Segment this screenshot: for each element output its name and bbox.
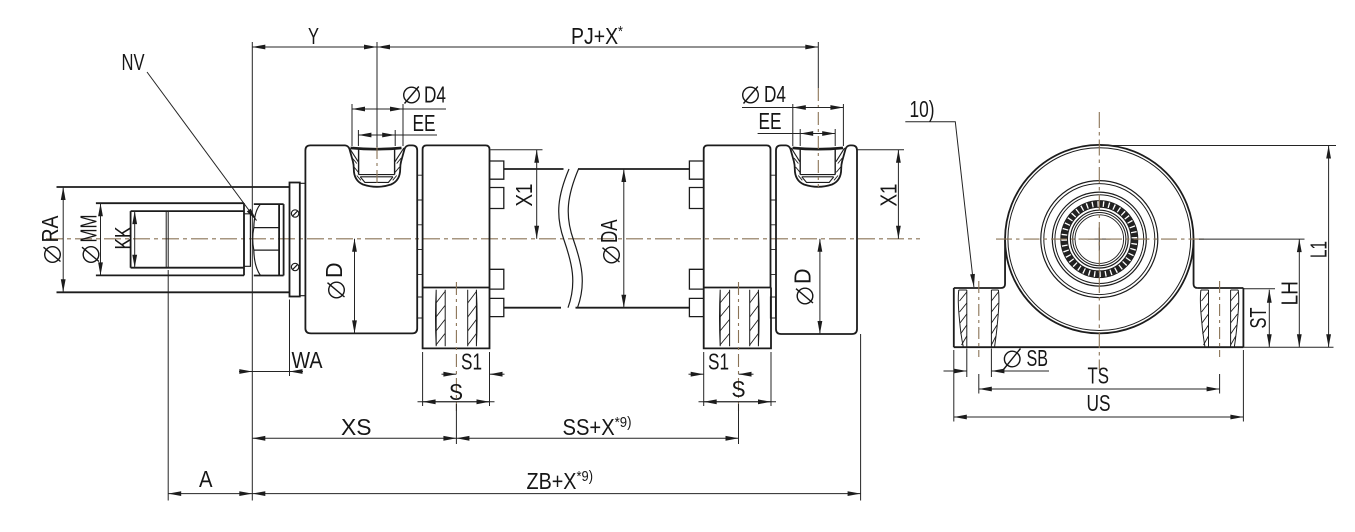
stud block 2 bbox=[704, 288, 771, 349]
ext lines TS bbox=[979, 374, 1220, 394]
cap-flange gap lower block bbox=[417, 297, 422, 318]
trunnion flange 2 bbox=[704, 145, 771, 287]
svg-text:WA: WA bbox=[292, 347, 324, 373]
left foot band outer hatch bbox=[960, 292, 967, 345]
piston rod outer envelope RA lines bbox=[57, 187, 290, 292]
svg-text:KK: KK bbox=[110, 226, 136, 249]
label D right rotated bbox=[790, 269, 816, 304]
svg-text:D4: D4 bbox=[424, 82, 446, 108]
svg-text:10): 10) bbox=[910, 96, 935, 122]
rod cap port bore bottom lines bbox=[800, 175, 835, 177]
port 2 centerline bbox=[817, 88, 819, 187]
rod cap port chamfer diagonals bbox=[791, 148, 844, 162]
ext line stud2 center bbox=[738, 404, 740, 444]
dim LH bbox=[1298, 239, 1300, 347]
svg-text:MM: MM bbox=[76, 215, 102, 243]
lock nut NV body bbox=[254, 204, 284, 275]
ext lines D4 port1 bbox=[352, 104, 403, 146]
svg-text:ST: ST bbox=[1245, 308, 1271, 329]
left shoulder and foot top bbox=[954, 287, 1001, 289]
svg-text:LH: LH bbox=[1277, 281, 1303, 306]
head cap port hatch right bbox=[393, 158, 402, 180]
dim S right inside arrows bbox=[699, 401, 777, 403]
ext line thread runout long bbox=[167, 270, 169, 501]
rod cap port bore top heavy line bbox=[793, 148, 844, 149]
head cap port hatch left bbox=[352, 158, 361, 180]
dim S1 left outside arrows bbox=[442, 373, 457, 375]
stud 2 thread band right bbox=[750, 290, 759, 347]
svg-text:D: D bbox=[321, 263, 347, 279]
flange 1 tab 3 bbox=[490, 269, 504, 289]
dim L1 bbox=[1328, 146, 1330, 348]
svg-text:TS: TS bbox=[1088, 363, 1110, 389]
svg-text:EE: EE bbox=[759, 108, 782, 134]
label MM rotated bbox=[76, 215, 102, 263]
dim D4 port2 label tail bbox=[742, 107, 793, 109]
rod tip stub bbox=[244, 214, 250, 266]
svg-text:S1: S1 bbox=[461, 349, 482, 375]
flange 1 tab 1 bbox=[490, 161, 504, 179]
leader 10) bbox=[905, 122, 973, 279]
dim S1 right outside arrows bbox=[689, 373, 704, 375]
port 1 centerline bbox=[376, 146, 378, 187]
thread ring bounds bbox=[1061, 201, 1138, 278]
ext line stud1 center bbox=[455, 404, 457, 444]
svg-text:EE: EE bbox=[413, 110, 436, 136]
rod cap port drill cone bbox=[802, 177, 834, 183]
rod cap port hatch left bbox=[794, 158, 802, 180]
svg-text:D4: D4 bbox=[764, 81, 786, 107]
ext line port 2 center bbox=[817, 42, 819, 88]
stud 1 thread band left bbox=[436, 290, 446, 347]
stud 1 thread band right bbox=[468, 290, 477, 347]
right foot thread band outer bbox=[1231, 290, 1239, 347]
ext lines S block2 bbox=[704, 352, 771, 406]
dim A bbox=[168, 493, 252, 495]
svg-text:PJ+X*: PJ+X* bbox=[571, 23, 623, 49]
stud 1 thread band left hatch bbox=[436, 292, 445, 346]
svg-text:DA: DA bbox=[596, 219, 622, 243]
dim D right cap bbox=[819, 239, 821, 334]
left foot thread band outer bbox=[958, 290, 967, 347]
dim Y bbox=[252, 46, 377, 48]
body outer circle bbox=[1005, 145, 1194, 334]
label DA rotated bbox=[596, 219, 622, 263]
ext line L1 top bbox=[1101, 145, 1336, 147]
dim X1 left bbox=[536, 150, 538, 239]
dim D4 port1 bbox=[352, 108, 403, 110]
svg-text:X1: X1 bbox=[511, 184, 537, 207]
right foot thread band inner bbox=[1200, 290, 1208, 347]
dim SS+X bbox=[456, 437, 738, 439]
label RA rotated bbox=[37, 215, 63, 262]
end view center cross bbox=[1088, 228, 1111, 251]
trunnion flange 1 bbox=[423, 145, 490, 287]
dim EE port2 label tail bbox=[758, 133, 801, 135]
svg-text:SB: SB bbox=[1027, 345, 1049, 371]
rod shoulder bbox=[243, 203, 245, 275]
lock nut chamfer arcs bbox=[253, 204, 261, 275]
dim SB right segment with label tail bbox=[991, 370, 1049, 372]
rod cap port hatch right bbox=[834, 158, 842, 180]
svg-text:A: A bbox=[199, 466, 213, 492]
dim S left inside arrows bbox=[418, 401, 495, 403]
left tangent riser bbox=[1001, 239, 1005, 288]
flange 1 tab 4 bbox=[490, 298, 504, 316]
bore circle 2 bbox=[1073, 213, 1126, 266]
svg-text:S: S bbox=[732, 376, 746, 402]
svg-text:X1: X1 bbox=[876, 184, 902, 207]
label D left rotated bbox=[321, 263, 347, 298]
body chamfer circle bbox=[1008, 148, 1191, 331]
dim ZB+X bbox=[252, 493, 860, 495]
thread runout double line bbox=[166, 211, 168, 268]
counterbore circle 2 bbox=[1055, 195, 1144, 284]
dim US bbox=[954, 416, 1244, 418]
svg-text:S1: S1 bbox=[708, 349, 729, 375]
ext line ZB right bbox=[860, 334, 862, 501]
label D4 port2 bbox=[743, 81, 786, 107]
ext line base bottom extended bbox=[1243, 346, 1333, 348]
svg-text:S: S bbox=[449, 379, 463, 405]
dim X1 right bbox=[897, 150, 899, 239]
right tangent riser bbox=[1194, 239, 1198, 288]
rod cap port thread bore EE bbox=[800, 148, 835, 175]
end view horizontal centerline bbox=[996, 238, 1204, 240]
dim EE port1 bbox=[358, 134, 395, 136]
dim TS bbox=[979, 388, 1220, 390]
dim XS bbox=[252, 437, 456, 439]
dim RA bbox=[62, 187, 64, 292]
flange 2 tab 2 bbox=[689, 188, 703, 209]
dim PJ+X bbox=[377, 46, 818, 48]
svg-text:SS+X*9): SS+X*9) bbox=[563, 414, 632, 440]
right stud centerline bbox=[1219, 281, 1221, 357]
svg-text:D: D bbox=[790, 269, 816, 285]
ext lines S block1 bbox=[423, 352, 490, 406]
label SB bbox=[1004, 345, 1049, 371]
tube break curve 1 bbox=[559, 169, 573, 308]
svg-text:ZB+X*9): ZB+X*9) bbox=[527, 468, 594, 494]
leader NV bbox=[147, 72, 257, 221]
flange2-cap gap tick marks bbox=[771, 175, 777, 274]
right shoulder bbox=[1198, 287, 1244, 289]
rod thread KK section bbox=[131, 211, 244, 268]
tube break curve 2 bbox=[568, 169, 582, 308]
ext lines SB bore bbox=[967, 349, 992, 378]
cap-flange gap tick marks bbox=[417, 175, 422, 274]
ext line port 1 center bbox=[376, 42, 378, 147]
svg-text:Y: Y bbox=[308, 23, 319, 49]
head cap port thread bore EE bbox=[359, 148, 395, 175]
flange 1 tab 2 bbox=[490, 188, 504, 209]
end view vertical centerline bbox=[1098, 112, 1100, 370]
left foot band inner hatch bbox=[991, 292, 998, 345]
boss circle pair outer bbox=[1041, 181, 1158, 298]
base bottom bbox=[954, 346, 1244, 348]
svg-text:L1: L1 bbox=[1306, 241, 1332, 258]
dim DA tube bbox=[623, 169, 625, 308]
bore circle 1 bbox=[1070, 210, 1128, 268]
svg-text:RA: RA bbox=[37, 215, 63, 243]
lock nut hex flat lines bbox=[254, 228, 279, 251]
head cap port bore top heavy line bbox=[351, 148, 402, 149]
right foot band outer hatch bbox=[1231, 292, 1239, 345]
right foot band inner hatch bbox=[1202, 292, 1209, 345]
flange2-cap gap lower block bbox=[770, 297, 775, 318]
stud 2 thread band left bbox=[720, 290, 730, 347]
dim EE port1 label tail bbox=[395, 134, 437, 136]
ext line shoulder to ST bbox=[1243, 288, 1275, 290]
ext lines D4 port2 bbox=[793, 104, 844, 146]
ext line X1 right bbox=[857, 149, 904, 151]
flange 2 tab 1 bbox=[689, 161, 703, 179]
rod end cap outline with port notch bbox=[776, 145, 857, 334]
dim ST bbox=[1268, 290, 1270, 348]
stud 1 thread band right hatch bbox=[468, 292, 477, 346]
dim WA outside arrows bbox=[239, 371, 252, 373]
stud 1 centerline bbox=[455, 282, 457, 411]
dim D4 port2 bbox=[793, 107, 844, 109]
head cap port drill cone bbox=[360, 177, 393, 183]
left foot thread band inner bbox=[991, 290, 999, 347]
ext line centerline to LH bbox=[1199, 238, 1305, 240]
counterbore circle 1 bbox=[1052, 192, 1146, 286]
stud block 1 bbox=[423, 288, 490, 349]
svg-text:NV: NV bbox=[122, 49, 145, 75]
label D4 port1 bbox=[404, 82, 446, 108]
stud 2 centerline bbox=[738, 282, 740, 411]
thread ring dark band bbox=[1064, 204, 1134, 274]
ext lines EE port2 bbox=[800, 129, 835, 146]
ext line rod shoulder long bbox=[251, 42, 253, 501]
gland screw 1 bbox=[291, 210, 298, 217]
ext line X1 left bbox=[490, 149, 542, 151]
dim EE port2 bbox=[800, 133, 835, 135]
head cap outline with port notch bbox=[305, 145, 417, 333]
head cap port bore bottom lines bbox=[359, 175, 395, 177]
gland connector lines bbox=[300, 183, 306, 295]
left stud centerline bbox=[978, 281, 980, 357]
dim D4 port1 label tail bbox=[403, 108, 446, 110]
stud 2 thread band right hatch bbox=[750, 292, 759, 346]
wire main centerline bbox=[46, 238, 920, 240]
boss circle pair inner bbox=[1044, 184, 1155, 295]
dim MM bbox=[100, 203, 102, 275]
cylinder tube DA lines bbox=[504, 169, 690, 308]
ext line WA right bbox=[289, 300, 291, 377]
stud 2 thread band left hatch bbox=[720, 292, 730, 346]
dim SB left segment bbox=[944, 370, 967, 372]
gland screw 2 bbox=[291, 263, 298, 270]
ext lines US bbox=[954, 350, 1244, 422]
END VIEW bbox=[954, 145, 1244, 347]
rod gland plate bbox=[290, 183, 300, 297]
svg-text:XS: XS bbox=[341, 414, 372, 440]
dim D left cap bbox=[354, 239, 356, 334]
piston rod MM lines bbox=[96, 203, 244, 275]
flange 2 tab 3 bbox=[689, 269, 703, 289]
svg-text:US: US bbox=[1087, 390, 1111, 416]
bore circle 3 bbox=[1075, 215, 1124, 264]
base sides bbox=[954, 288, 1244, 347]
head cap port chamfer diagonals bbox=[349, 148, 404, 162]
flange 2 tab 4 bbox=[689, 298, 703, 316]
ext lines EE port1 bbox=[358, 130, 395, 146]
dim KK bbox=[134, 211, 136, 268]
